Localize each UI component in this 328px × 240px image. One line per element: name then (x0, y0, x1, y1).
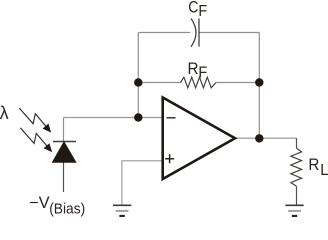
op-amp plus sign (165, 154, 174, 163)
svg-text:λ: λ (0, 103, 9, 123)
ground RL (285, 205, 303, 216)
wire RL top (296, 138, 298, 148)
svg-text:L: L (320, 162, 328, 179)
capacitor C_F (191, 19, 199, 47)
resistor R_L (291, 148, 302, 186)
resistor R_F (181, 77, 217, 88)
wire right feedback vertical (258, 33, 260, 139)
wire output (235, 137, 297, 139)
svg-text:−V: −V (29, 194, 50, 212)
wire RL bottom (296, 186, 298, 204)
wire RF right segment (216, 82, 259, 84)
junction node output (255, 134, 263, 142)
svg-text:R: R (308, 156, 319, 174)
svg-text:C: C (188, 0, 198, 16)
wire non-inverting input to ground (122, 161, 162, 205)
wire inverting input (64, 117, 162, 119)
junction node inverting input (134, 113, 142, 121)
wire top feedback left segment (138, 32, 190, 34)
wire top feedback right segment (199, 32, 259, 34)
junction node RF-right (255, 78, 263, 86)
wire RF left segment (138, 82, 180, 84)
ground noninverting (113, 205, 131, 216)
light arrow 2 (20, 128, 52, 153)
svg-text:F: F (198, 64, 207, 81)
photodiode D1 triangle (53, 142, 76, 162)
light arrow 1 (19, 108, 51, 133)
junction node RF-left (134, 78, 142, 86)
op-amp minus sign (167, 117, 176, 119)
photodiode D1 cathode bar (53, 141, 76, 143)
wire left feedback vertical (137, 33, 139, 118)
wire photodiode cathode (63, 118, 65, 142)
svg-text:F: F (198, 3, 207, 20)
svg-text:R: R (188, 60, 199, 78)
wire photodiode anode (63, 162, 65, 192)
svg-text:(Bias): (Bias) (49, 201, 85, 217)
op-amp U1 (163, 98, 235, 180)
